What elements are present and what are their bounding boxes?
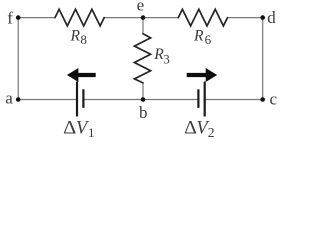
current arrow for V2 (pointing right) xyxy=(187,68,218,82)
current arrow for V1 (pointing left) xyxy=(67,68,96,82)
svg-text:Δ: Δ xyxy=(184,118,197,138)
node c xyxy=(260,97,265,102)
svg-text:d: d xyxy=(267,8,276,27)
resistor R3 xyxy=(134,34,150,83)
svg-text:Δ: Δ xyxy=(63,118,76,138)
battery V2 long plate xyxy=(204,82,206,117)
resistor R8 xyxy=(55,9,104,26)
wire f to R8 (top left) xyxy=(18,17,55,19)
svg-text:R: R xyxy=(193,27,204,44)
wire R8 to e to R6 (top middle) xyxy=(104,17,178,19)
svg-text:8: 8 xyxy=(80,32,87,47)
svg-text:a: a xyxy=(5,88,13,107)
node a xyxy=(16,97,21,102)
wire battery V2 to c (bottom right) xyxy=(205,99,263,101)
svg-text:3: 3 xyxy=(163,51,170,66)
svg-text:R: R xyxy=(70,27,81,44)
resistor R6 xyxy=(178,9,227,26)
battery V2 short plate xyxy=(197,89,199,108)
node b xyxy=(141,97,146,102)
svg-text:2: 2 xyxy=(208,125,215,140)
wire d to c (right side) xyxy=(262,18,264,100)
wire battery V1 to b to battery V2 (bottom middle) xyxy=(83,99,198,101)
svg-text:1: 1 xyxy=(88,125,95,140)
wire a to battery V1 (bottom left) xyxy=(18,99,77,101)
svg-text:e: e xyxy=(137,0,145,14)
wire R3 to b (middle vertical bottom) xyxy=(142,83,144,100)
node f xyxy=(16,15,21,20)
svg-text:c: c xyxy=(270,89,278,108)
svg-text:f: f xyxy=(7,9,13,28)
battery V1 long plate xyxy=(76,82,78,117)
wire f to a (left side) xyxy=(17,18,19,100)
node e xyxy=(141,15,146,20)
wire e to R3 (middle vertical top) xyxy=(142,18,144,34)
svg-text:b: b xyxy=(139,103,148,122)
wire R6 to d (top right) xyxy=(228,17,263,19)
svg-text:6: 6 xyxy=(205,32,212,47)
battery V1 short plate xyxy=(82,89,84,108)
node d xyxy=(260,15,265,20)
